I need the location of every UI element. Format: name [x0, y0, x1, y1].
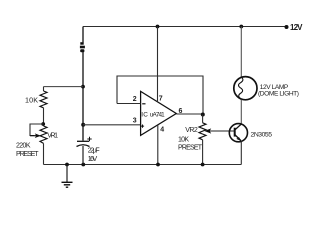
wire +12V top rail	[83, 26, 286, 28]
wire pin 4 to ground rail	[157, 125, 159, 165]
lamp 12V dome light bulb	[234, 77, 257, 100]
pin label 4	[160, 127, 164, 134]
node junction wire/10K branch	[81, 85, 85, 89]
wire pin 7 supply	[157, 27, 159, 102]
resistor (top-left, compressed symbol)	[80, 42, 85, 52]
pin label 2	[133, 96, 137, 103]
wire horizontal to 10K column	[44, 86, 84, 88]
svg-text:4: 4	[160, 127, 164, 134]
wire left branch continues down to capacitor	[82, 52, 84, 141]
op-amp plus marker	[141, 125, 144, 128]
svg-text:10K: 10K	[178, 136, 189, 143]
node capacitor bottom junction	[81, 163, 85, 167]
wire lamp to collector	[240, 100, 242, 124]
node +12V terminal	[285, 25, 289, 29]
label PRESET (VR2)	[178, 144, 203, 151]
net label 12V	[290, 23, 303, 32]
value label 10K	[25, 96, 38, 105]
wire between 10K and VR1	[43, 108, 45, 126]
wire emitter to ground rail	[240, 141, 242, 164]
preset VR2 10K body	[199, 123, 206, 140]
value label 16V	[88, 156, 98, 163]
wire ground rail (bottom)	[44, 164, 242, 166]
svg-text:22µF: 22µF	[88, 148, 100, 155]
node VR1 wiper tie	[41, 122, 45, 126]
resistor 10K	[40, 91, 47, 108]
svg-text:VR2: VR2	[185, 127, 198, 134]
svg-text:3: 3	[133, 118, 137, 125]
wire VR2 top lead	[202, 115, 204, 123]
svg-text:PRESET: PRESET	[178, 144, 203, 151]
svg-text:IC: IC	[141, 111, 148, 118]
node ground junction	[65, 163, 69, 167]
ground	[62, 165, 73, 188]
value label 22uF	[88, 148, 100, 155]
wire pin 3 input	[83, 124, 141, 126]
preset VR1 220K body	[40, 126, 47, 143]
svg-text:10K: 10K	[25, 96, 38, 105]
ref label VR1	[47, 132, 58, 139]
wire VR1 bottom lead	[43, 143, 45, 164]
op-amp label IC uA741	[141, 111, 165, 118]
node pin 7 rail junction	[156, 25, 160, 29]
wire pin 6 output	[176, 113, 203, 115]
wire pin 2 input	[117, 103, 141, 105]
node pin 4 rail junction	[156, 163, 160, 167]
op-amp U1 uA741 triangle	[141, 91, 177, 135]
svg-text:VR1: VR1	[47, 132, 58, 139]
node output / VR2 top junction	[201, 113, 205, 117]
svg-text:12V: 12V	[290, 23, 303, 32]
svg-text:2N3055: 2N3055	[251, 131, 273, 138]
wire VR2 bottom lead	[202, 140, 204, 165]
ref label VR2	[185, 127, 198, 134]
pin label 3	[133, 118, 137, 125]
ref label 2N3055	[251, 131, 273, 138]
svg-text:7: 7	[159, 96, 163, 103]
svg-text:2: 2	[133, 96, 137, 103]
value label 10K (VR2)	[178, 136, 189, 143]
label (DOME LIGHT)	[258, 90, 299, 97]
svg-text:uA741: uA741	[150, 111, 165, 118]
wire 10K top lead	[43, 87, 45, 91]
svg-text:(DOME LIGHT): (DOME LIGHT)	[258, 90, 299, 97]
pin label 6	[179, 108, 183, 115]
preset VR1 wiper loop wire	[30, 124, 43, 136]
capacitor C 22uF polarity mark	[87, 137, 91, 141]
wire left branch from rail down to resistor	[82, 27, 84, 43]
wire lamp top lead	[240, 27, 242, 78]
svg-text:PRESET: PRESET	[16, 151, 39, 158]
node VR2 ground junction	[201, 163, 205, 167]
node pin3 branch junction	[81, 123, 85, 127]
transistor Q 2N3055	[229, 124, 247, 142]
value label 220K	[16, 143, 31, 150]
label PRESET (VR1)	[16, 151, 39, 158]
label 12V LAMP	[260, 84, 289, 91]
wire capacitor bottom lead	[82, 146, 84, 165]
preset VR1 wiper arrow	[30, 133, 41, 138]
svg-text:220K: 220K	[16, 143, 31, 150]
svg-text:16V: 16V	[88, 156, 98, 163]
op-amp minus marker	[142, 103, 145, 105]
node lamp branch rail junction	[239, 25, 243, 29]
wire feedback loop	[117, 76, 203, 115]
pin label 7	[159, 96, 163, 103]
preset VR2 wiper arrow to transistor base	[204, 128, 234, 133]
capacitor C 22uF plates	[77, 141, 90, 146]
